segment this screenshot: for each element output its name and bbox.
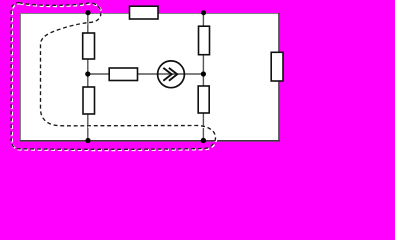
sheet frame left edge [20,13,22,142]
sheet frame top edge / top wire [20,13,280,15]
wire: left branch vertical x=87.8 [87,13,89,141]
sheet frame bottom edge / bottom wire [20,140,280,142]
wire: middle horizontal y=74 [88,73,204,75]
resistor R2 (upper left branch) [83,33,95,59]
resistor R3 (lower left branch) [83,87,95,114]
node dot bottom-right [201,138,206,143]
resistor R1 (top, on top wire) [130,6,159,19]
node dot middle-right [201,71,206,76]
U1 chevron 1 [163,68,171,81]
node dot top-right [201,10,206,15]
controlled current source U1 (circle) [158,61,185,88]
dashed loop white casing [12,3,216,150]
resistor R5 (lower right branch) [198,86,209,113]
dashed loop black dashes [11,3,215,150]
wire: right branch vertical x=203.4 [202,13,204,141]
node dot bottom-left [85,138,90,143]
sheet frame right edge / right wire [278,13,280,142]
U1 chevron 2 [169,68,177,81]
node dot top-left [85,10,90,15]
resistor R4 (upper right branch) [199,26,210,55]
schematic sheet (white page) [20,13,280,142]
resistor R6 (on right edge wire) [271,52,283,81]
node dot middle-left [85,71,90,76]
resistor R7 (middle horizontal branch) [109,68,137,81]
